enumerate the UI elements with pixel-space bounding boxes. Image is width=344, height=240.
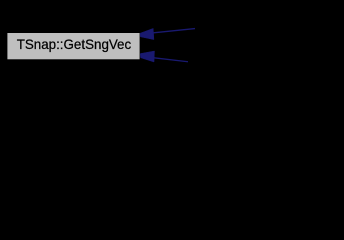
caller edge lower: wire [154, 58, 188, 62]
caller edge upper: arrowhead [140, 28, 154, 39]
node TSnap::GetSngVec [7, 33, 140, 60]
svg-text:TSnap::GetSngVec: TSnap::GetSngVec [17, 36, 132, 52]
caller edge upper: wire [153, 29, 195, 33]
caller edge lower: arrowhead [140, 51, 154, 62]
